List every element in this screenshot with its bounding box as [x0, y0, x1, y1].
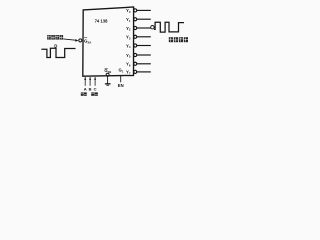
- svg-text:B: B: [89, 87, 92, 92]
- svg-text:A: A: [84, 87, 87, 92]
- svg-text:74 138: 74 138: [95, 19, 108, 24]
- svg-text:EN: EN: [118, 83, 124, 88]
- svg-text:C: C: [94, 87, 97, 92]
